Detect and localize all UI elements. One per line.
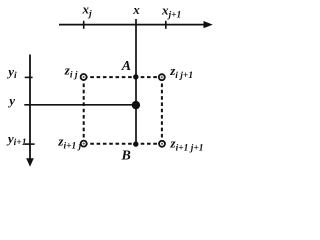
- svg-text:x: x: [132, 2, 140, 17]
- svg-text:B: B: [121, 148, 131, 163]
- svg-text:A: A: [121, 59, 131, 74]
- svg-text:y: y: [7, 93, 15, 108]
